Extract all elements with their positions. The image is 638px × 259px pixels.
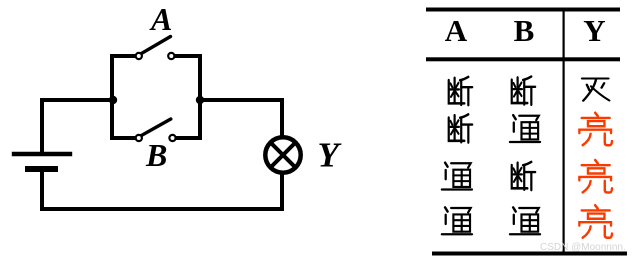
svg-text:CSDN @Moonnnn.: CSDN @Moonnnn. — [540, 242, 626, 253]
svg-text:Y: Y — [318, 136, 343, 175]
svg-text:B: B — [145, 137, 167, 173]
svg-text:A: A — [445, 13, 468, 48]
svg-text:A: A — [149, 1, 172, 37]
svg-text:B: B — [514, 13, 535, 48]
svg-text:Y: Y — [583, 13, 605, 48]
